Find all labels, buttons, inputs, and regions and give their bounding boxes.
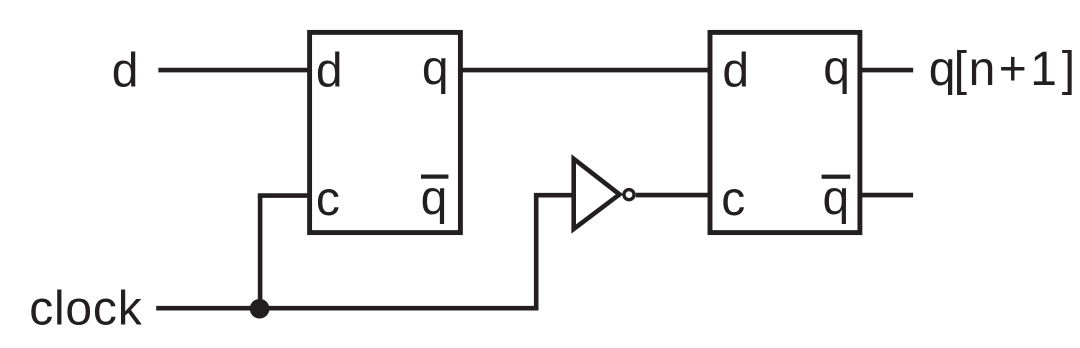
wire branch horizontal to U1.c bbox=[258, 193, 310, 198]
svg-text:clock: clock bbox=[29, 282, 143, 335]
svg-text:d: d bbox=[112, 44, 139, 97]
wire clock main horizontal bbox=[156, 306, 536, 311]
wire U2.qbar output bbox=[860, 193, 913, 198]
svg-text:q: q bbox=[421, 172, 448, 225]
U2 pin qbar label bbox=[822, 172, 851, 225]
flip-flop U2 box bbox=[710, 32, 860, 232]
wire U1.q to U2.d bbox=[460, 68, 710, 73]
U1 pin qbar label bbox=[421, 172, 449, 225]
inverter U3 bubble bbox=[624, 190, 634, 200]
svg-text:q: q bbox=[823, 172, 850, 225]
junction dot on clock net bbox=[250, 299, 270, 319]
wire d input to U1.d bbox=[158, 68, 309, 73]
flip-flop U1 box bbox=[310, 32, 461, 232]
svg-text:d: d bbox=[722, 44, 749, 97]
svg-text:d: d bbox=[316, 44, 343, 97]
svg-text:c: c bbox=[721, 173, 745, 226]
svg-text:q[n+1]: q[n+1] bbox=[929, 43, 1075, 96]
inverter U3 triangle bbox=[574, 159, 620, 229]
wire inverter output to U2.c bbox=[636, 193, 710, 198]
wire U2.q output bbox=[860, 68, 913, 73]
wire riser to inverter input bbox=[534, 193, 574, 198]
svg-text:q: q bbox=[823, 42, 850, 95]
svg-text:q: q bbox=[422, 42, 449, 95]
wire junction up to U1.c branch vertical bbox=[258, 196, 263, 309]
wire clock riser vertical bbox=[534, 195, 539, 310]
svg-text:c: c bbox=[316, 173, 340, 226]
